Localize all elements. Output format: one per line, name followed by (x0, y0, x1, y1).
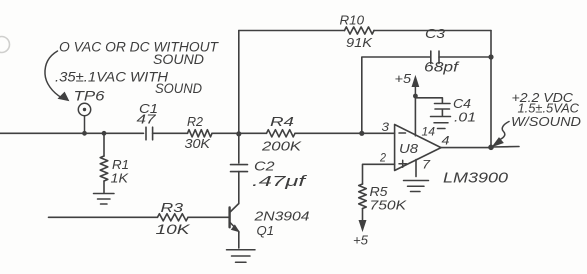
power arrow +5 (R5) (359, 221, 366, 231)
resistor R5 (359, 184, 367, 209)
svg-text:30K: 30K (185, 136, 212, 151)
svg-text:.47μf: .47μf (252, 174, 308, 190)
wire R5 to +5 arrow (362, 209, 364, 223)
svg-text:1K: 1K (111, 171, 130, 186)
svg-text:.01: .01 (454, 110, 476, 125)
svg-text:3: 3 (382, 120, 390, 134)
svg-text:LM3900: LM3900 (443, 169, 509, 186)
wire op-amp output (441, 147, 491, 149)
junction dot pin3 node (359, 131, 364, 136)
svg-text:2N3904: 2N3904 (253, 209, 309, 224)
junction dot at R1 top (102, 131, 107, 136)
wire main input line (left segment to C1) (0, 132, 144, 134)
svg-text:SOUND: SOUND (155, 81, 202, 96)
svg-text:C2: C2 (254, 159, 275, 174)
resistor R4 (267, 130, 296, 137)
wire C3 to right riser (439, 56, 491, 58)
svg-text:+5: +5 (395, 71, 412, 86)
svg-text:R10: R10 (340, 13, 365, 28)
wire pin 7 to ground (415, 160, 417, 177)
capacitor C1 (146, 127, 153, 140)
wire +5 node to C4 (415, 98, 442, 103)
junction dot +5 node (413, 94, 418, 99)
svg-text:91K: 91K (346, 35, 373, 50)
wire C1 right to R2 (153, 132, 188, 134)
wire C2 to Q1 collector (238, 172, 240, 204)
wire node to C2 (238, 134, 240, 163)
svg-text:C3: C3 (425, 26, 446, 41)
svg-text:TP6: TP6 (74, 89, 106, 104)
resistor R3 (158, 214, 189, 221)
svg-text:R3: R3 (161, 200, 185, 215)
transistor Q1 2N3904 (230, 204, 239, 249)
wire R4 to pin3 node (295, 132, 362, 134)
wire feedback right riser (490, 31, 492, 148)
wire C3 riser from pin3 node (362, 57, 430, 133)
wire pin 2 input (363, 164, 395, 184)
wire output stub right (491, 146, 519, 149)
wire pin 3 input (362, 132, 395, 134)
svg-text:4: 4 (442, 134, 450, 148)
power arrow +5 (pin 14) (414, 82, 416, 96)
svg-text:200K: 200K (261, 139, 303, 154)
svg-text:10K: 10K (156, 222, 191, 237)
svg-text:W/SOUND: W/SOUND (511, 114, 581, 129)
svg-text:+5: +5 (353, 232, 369, 247)
wire feedback top (left of R10) (239, 30, 345, 32)
junction dot C3-feedback (488, 54, 493, 59)
svg-text:2: 2 (379, 150, 386, 164)
resistor R2 (188, 130, 213, 137)
svg-text:750K: 750K (370, 197, 408, 212)
svg-text:14: 14 (422, 124, 436, 138)
ground for Q1 emitter (227, 250, 256, 262)
output annotation squiggle arrow (500, 122, 509, 140)
svg-text:68pf: 68pf (424, 60, 460, 75)
junction dot at TP6 stem (82, 131, 87, 136)
svg-text:Q1: Q1 (257, 223, 275, 238)
wire R2 to node (212, 132, 239, 134)
junction dot output node (488, 145, 494, 151)
ground for C4 (431, 117, 451, 129)
test point TP6 symbol (78, 103, 90, 115)
wire base line (49, 216, 158, 218)
wire R3 to Q1 base (188, 216, 230, 218)
ground for R1 (94, 194, 115, 205)
op-amp U8 triangle (395, 125, 441, 171)
wire TP6 stem (84, 116, 86, 133)
svg-text:47: 47 (137, 112, 157, 127)
op-amp inverting input minus sign (399, 132, 406, 134)
resistor R10 (345, 27, 375, 34)
svg-text:.35±.1VAC WITH: .35±.1VAC WITH (55, 70, 168, 85)
wire feedback top (right of R10) (374, 30, 491, 32)
svg-text:R4: R4 (270, 114, 294, 129)
annotation curved arrow to TP6 (45, 51, 62, 98)
node junction dot (R2-R4-C2-R10 net) (236, 131, 241, 136)
wire pin 14 to +5 node (414, 96, 416, 136)
capacitor C3 (431, 51, 439, 64)
ground for op-amp pin 7 (404, 181, 429, 192)
svg-text:R2: R2 (187, 114, 204, 129)
punch hole (scan artifact, left edge) (0, 37, 10, 53)
capacitor C4 (435, 104, 451, 116)
wire node to R4 (239, 132, 267, 134)
op-amp non-inverting input plus sign (399, 160, 407, 167)
svg-text:U8: U8 (399, 141, 419, 156)
capacitor C2 (231, 165, 248, 172)
resistor R1 (103, 133, 105, 156)
svg-text:SOUND: SOUND (153, 52, 204, 67)
wire feedback riser at node (238, 31, 240, 134)
